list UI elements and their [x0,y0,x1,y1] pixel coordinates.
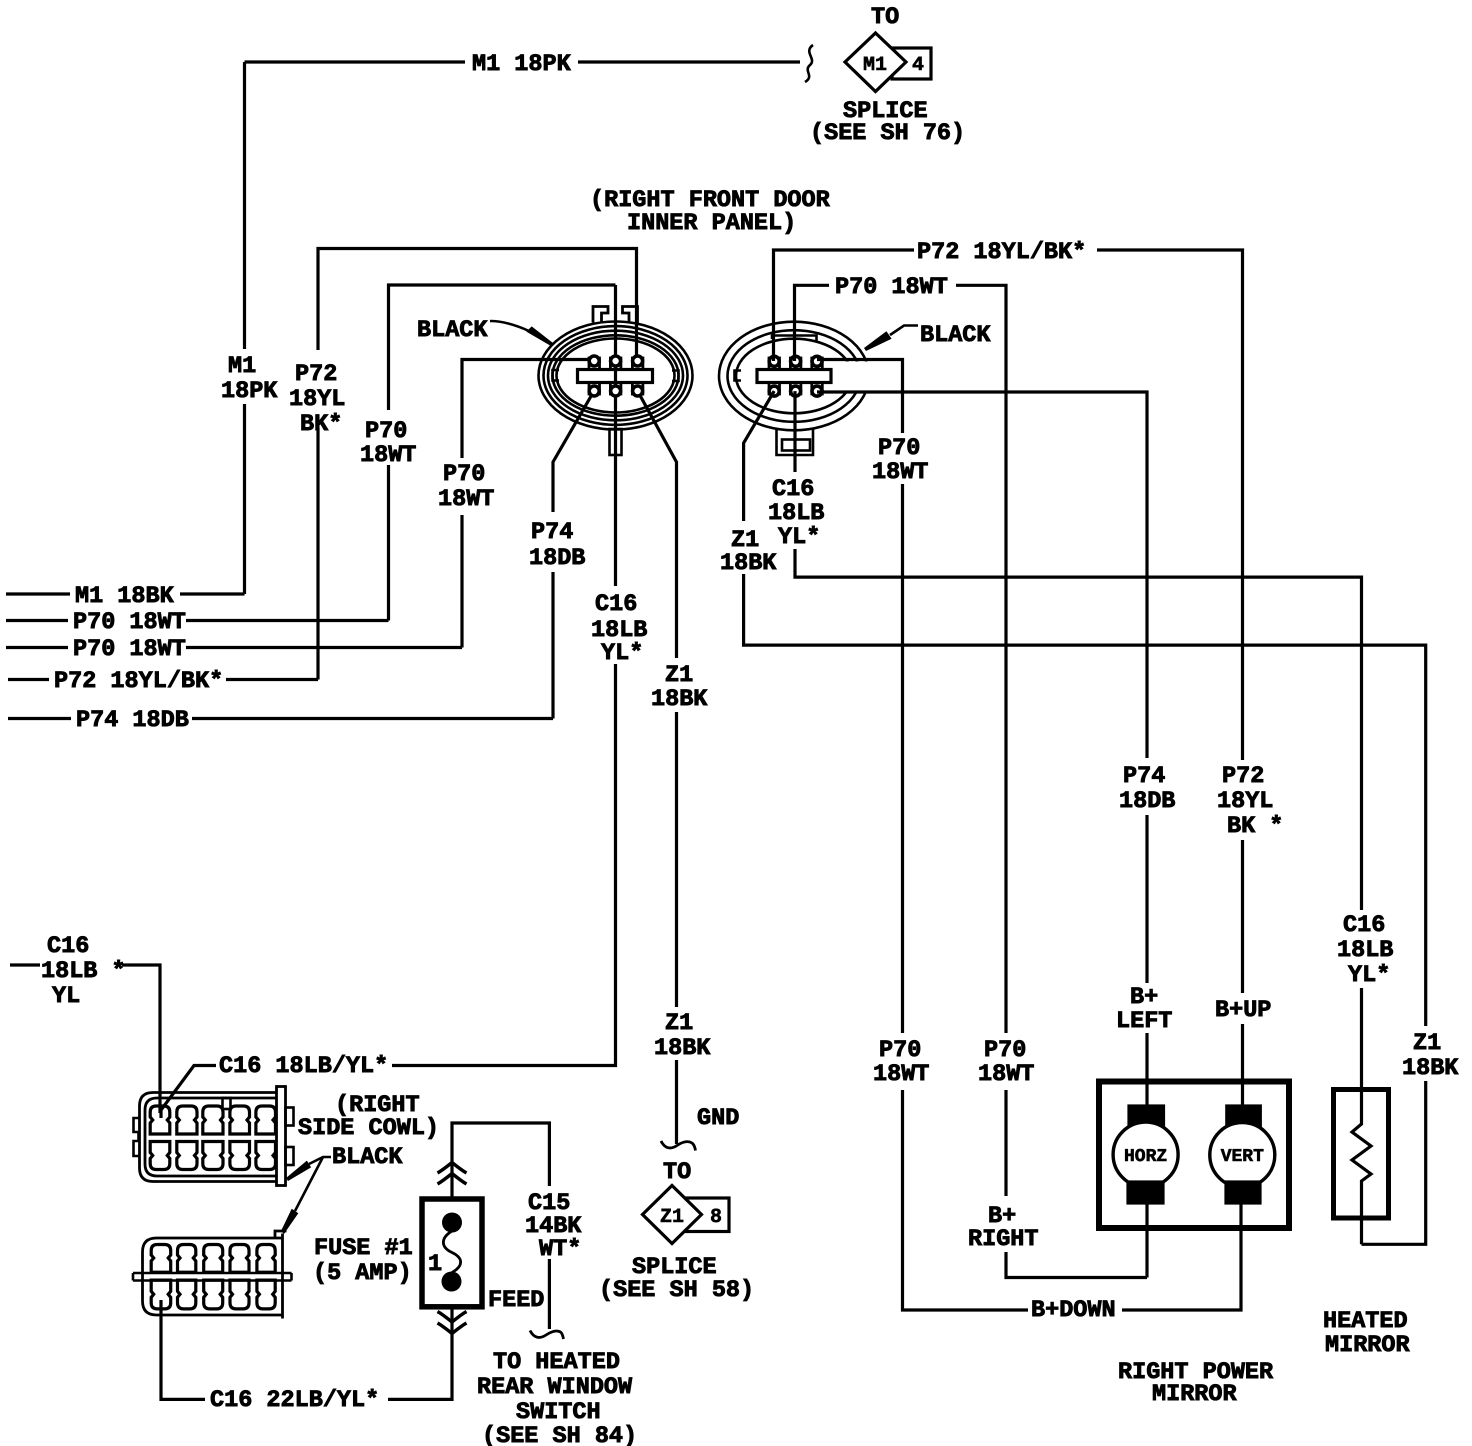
svg-text:M1 18PK: M1 18PK [472,51,572,78]
wire P70 left vertical 1 [389,285,616,621]
arrow BLACK cowl lower [295,1157,323,1211]
svg-text:M1 18BK: M1 18BK [75,583,175,610]
svg-text:18WT: 18WT [872,459,928,486]
svg-text:18PK: 18PK [221,378,278,405]
svg-text:YL*: YL* [778,524,820,551]
power mirror box [1099,1082,1289,1229]
svg-text:P72: P72 [295,361,337,388]
wire M1 18PK top horizontal [245,60,801,63]
wire P70 18WT right run (top-middle pin) [795,285,1148,1277]
wire P70 18WT stub row 2 [6,646,462,649]
connector C302 pin stems [769,358,822,394]
wire P74 diagonal from pin [553,391,594,719]
svg-text:HEATED: HEATED [1323,1308,1408,1335]
wire P72 left vertical [318,249,637,680]
connector C301 left pin circles top [589,356,599,366]
C15 break hook [530,1331,564,1340]
fuse F1 body [422,1199,482,1307]
splice M1-4 pin box [892,48,931,79]
cowl connector C2 body [143,1238,283,1315]
motor VERT bottom terminal [1226,1182,1260,1203]
splice M1-4 diamond [845,33,906,92]
wire C16 middle vertical [161,285,616,1118]
svg-text:Z1: Z1 [665,1010,693,1037]
fuse break chevrons lower [438,1312,467,1334]
connector C302 right inner oval [736,339,852,414]
motor VERT body [1210,1123,1275,1188]
wire P70 18WT stub row 1 [6,619,389,622]
splice Z1-8 pin box [686,1198,729,1232]
connector C301 left ear tab right [623,307,638,323]
svg-text:P74: P74 [1123,763,1165,790]
cowl connector C1 cavities top row [150,1106,275,1134]
cowl connector C1 end plate [277,1087,286,1186]
fuse F1 element top ball [442,1213,462,1233]
svg-text:P70: P70 [443,461,485,488]
splice Z1-8 diamond [643,1186,702,1244]
svg-text:C16 22LB/YL*: C16 22LB/YL* [210,1387,379,1414]
svg-text:C16: C16 [772,476,814,503]
svg-text:M1: M1 [228,353,256,380]
svg-text:P72: P72 [1222,763,1264,790]
cowl connector C1 body inner [145,1098,277,1176]
connector C301 left pin circles bottom [589,386,599,396]
svg-text:(SEE SH 76): (SEE SH 76) [810,120,965,147]
connector C301 left ear tab left [593,307,608,323]
svg-text:(5 AMP): (5 AMP) [313,1260,412,1287]
svg-text:FEED: FEED [488,1287,544,1314]
wire P72 18YL/BK* right run [774,250,1243,1107]
svg-text:18LB: 18LB [1337,937,1393,964]
svg-text:B+UP: B+UP [1215,997,1271,1024]
wire C16 22LB/YL* [161,1300,452,1399]
cowl connector C2 mid flange [133,1273,292,1281]
svg-text:18WT: 18WT [360,442,416,469]
svg-text:18BK: 18BK [654,1035,711,1062]
svg-text:YL: YL [52,983,80,1010]
connector C301 left inner oval [557,339,675,413]
connector C301 left oval ring 2 [544,326,688,425]
connector C301 left oval ring 3 [548,331,683,421]
svg-text:YL*: YL* [1348,962,1390,989]
svg-text:VERT: VERT [1221,1147,1264,1167]
arrow BLACK left connector [490,321,529,331]
svg-text:18LB: 18LB [768,500,824,527]
cowl connector C1 top key [223,1098,231,1109]
svg-text:P70: P70 [984,1037,1026,1064]
cowl connector C2 cavities top row [151,1245,275,1273]
connector C301 left bottom tab [610,429,622,455]
svg-text:P70 18WT: P70 18WT [73,636,186,663]
wire C16 18LB* YL stub [10,965,160,1113]
cowl connector C1 right tabs [286,1108,294,1126]
svg-text:18BK: 18BK [720,550,777,577]
connector C301 left pin bar [578,370,653,383]
svg-text:BK *: BK * [1227,813,1283,840]
wire M1 18PK vertical [243,62,246,594]
svg-text:8: 8 [710,1206,722,1229]
svg-text:BLACK: BLACK [332,1144,403,1171]
motor VERT top terminal [1227,1106,1261,1127]
svg-text:BK*: BK* [300,411,342,438]
svg-text:18DB: 18DB [529,545,585,572]
svg-text:18WT: 18WT [438,486,494,513]
svg-text:Z1: Z1 [665,662,693,689]
svg-text:P72 18YL/BK*: P72 18YL/BK* [54,668,223,695]
svg-text:MIRROR: MIRROR [1152,1381,1238,1408]
fuse break chevrons upper [438,1163,467,1185]
svg-text:INNER PANEL): INNER PANEL) [627,210,796,237]
svg-text:(SEE SH 58): (SEE SH 58) [599,1277,754,1304]
svg-text:HORZ: HORZ [1124,1147,1167,1167]
wire P74 18DB stub row [8,717,553,720]
cowl connector C1 left clip [134,1118,140,1156]
connector C302 pin circles top [769,356,779,366]
svg-text:C16: C16 [1343,912,1385,939]
svg-text:18YL: 18YL [1217,788,1273,815]
wire P70 18WT right run (top-right pin) [817,360,1241,1311]
connector C302 pin circles bottom [769,386,779,396]
svg-text:Z1: Z1 [660,1206,684,1229]
svg-text:TO HEATED: TO HEATED [493,1349,620,1376]
svg-text:GND: GND [697,1105,739,1132]
fuse F1 element curve [443,1231,460,1273]
svg-text:P70 18WT: P70 18WT [835,274,948,301]
svg-text:P74 18DB: P74 18DB [76,707,189,734]
wire M1 18BK stub row [6,592,245,595]
svg-text:B+: B+ [1130,984,1158,1011]
svg-text:TO: TO [871,4,899,31]
motor HORZ top terminal [1129,1106,1164,1127]
wire P70 left vertical 2 [462,360,594,648]
svg-text:P74: P74 [531,519,573,546]
cowl connector C2 end plate [275,1231,287,1319]
connector C302 right oval ring 2 [728,330,861,422]
connector C302 inner top notch [772,336,817,342]
svg-text:P70 18WT: P70 18WT [73,609,186,636]
svg-text:18BK: 18BK [1402,1055,1459,1082]
svg-text:B+DOWN: B+DOWN [1031,1297,1116,1324]
svg-text:SIDE COWL): SIDE COWL) [298,1115,439,1142]
svg-text:FUSE #1: FUSE #1 [314,1235,413,1262]
svg-text:18WT: 18WT [873,1061,929,1088]
svg-text:RIGHT: RIGHT [968,1226,1039,1253]
wire C16 18LB right run (bottom-middle pin) [795,391,1362,1089]
connector C302 pin bar [757,370,831,383]
wire Z1 18BK right run (bottom-left pin) [744,391,1426,1244]
heated mirror resistor element [1352,1089,1371,1244]
arrow BLACK cowl upper [309,1157,331,1164]
svg-text:LEFT: LEFT [1116,1008,1172,1035]
svg-text:BLACK: BLACK [920,322,991,349]
connector C302 wire channel mask [826,362,878,391]
svg-text:4: 4 [912,54,924,77]
svg-text:Z1: Z1 [1413,1030,1441,1057]
connector C302 bottom tab [777,429,814,455]
svg-text:18DB: 18DB [1119,788,1175,815]
heated mirror resistor box [1334,1090,1389,1219]
wire P72 18YL/BK* stub row [8,678,318,681]
cowl connector C1 body outer [140,1093,277,1182]
svg-text:TO: TO [663,1159,691,1186]
connector C301 left oval ring 4 [553,335,679,415]
connector C301 inner oval notches [553,370,679,381]
wire HORZ motor bottom to B+RIGHT junction [1145,1203,1148,1278]
motor HORZ bottom terminal [1128,1182,1163,1203]
svg-text:(SEE SH 84): (SEE SH 84) [482,1423,637,1446]
svg-text:18YL: 18YL [289,386,345,413]
svg-text:P72 18YL/BK*: P72 18YL/BK* [917,239,1086,266]
svg-text:P70: P70 [365,418,407,445]
wire fuse feed to C15 [452,1123,549,1329]
svg-text:1: 1 [428,1251,442,1278]
svg-text:YL*: YL* [601,640,643,667]
cowl connector C1 cavities bottom row [150,1142,275,1170]
fuse F1 element bottom ball [442,1272,462,1292]
svg-text:C16: C16 [47,933,89,960]
svg-text:BLACK: BLACK [417,317,488,344]
connector C302 right oval ring 1 [719,322,869,431]
wire P74 18DB right run (bottom-right pin) [817,392,1147,1107]
svg-text:WT*: WT* [539,1236,581,1263]
svg-text:18LB *: 18LB * [41,958,126,985]
arrow BLACK right connector [890,326,918,336]
svg-text:C16 18LB/YL*: C16 18LB/YL* [219,1053,388,1080]
wire break squiggle [805,45,813,82]
svg-text:P70: P70 [879,1037,921,1064]
cowl connector C2 cavities bottom row [151,1280,275,1309]
ground break hook [661,1141,696,1151]
connector C302 inner left notch [735,371,742,381]
svg-text:P70: P70 [878,435,920,462]
motor HORZ body [1113,1122,1178,1187]
svg-text:C16: C16 [595,591,637,618]
svg-text:MIRROR: MIRROR [1325,1332,1411,1359]
connector C301 left oval ring 1 [539,322,693,430]
svg-text:REAR WINDOW: REAR WINDOW [477,1374,633,1401]
wire Z1 middle vertical [638,391,677,1144]
svg-text:M1: M1 [863,54,887,77]
svg-text:18BK: 18BK [651,686,708,713]
connector C301 left pin stems [589,358,643,394]
svg-text:SWITCH: SWITCH [516,1399,601,1426]
svg-text:18WT: 18WT [978,1061,1034,1088]
